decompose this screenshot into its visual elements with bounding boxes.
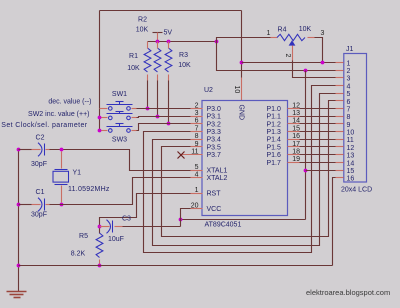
connector J1 box (344, 54, 367, 183)
resistor R3 (165, 48, 172, 72)
wire 5V branch down right side (305, 71, 307, 220)
svg-text:P1.1: P1.1 (267, 114, 282, 121)
wire R1 bottom to SW1 row (147, 81, 149, 109)
switch SW3 (109, 129, 113, 133)
svg-text:15: 15 (292, 125, 300, 132)
svg-text:dec. value (--): dec. value (--) (48, 98, 91, 105)
pin 15 J1 (336, 170, 344, 172)
wire GND top rail (100, 10, 242, 12)
resistor R1 (144, 48, 151, 72)
pin 15 (P1.3) U2 (288, 131, 300, 133)
svg-text:4: 4 (195, 172, 199, 179)
pin 9 J1 (336, 123, 344, 125)
pin stub C1 left (32, 204, 41, 206)
pin 16 J1 (336, 177, 344, 179)
node Y1 bottom junction (60, 203, 64, 207)
pin 10 J1 (336, 131, 344, 133)
svg-text:P3.4: P3.4 (207, 137, 222, 144)
ground symbol (7, 291, 27, 293)
pin 3 J1 (336, 77, 344, 79)
svg-text:R4: R4 (278, 27, 287, 34)
wire VCC jog (181, 209, 191, 227)
pin 5 J1 (336, 93, 344, 95)
op U2 box (202, 101, 288, 216)
node SW3 / GND bus junction (98, 129, 102, 133)
wire R3 bottom to SW3 row (168, 81, 170, 124)
svg-text:11: 11 (191, 149, 198, 156)
svg-text:R5: R5 (79, 233, 88, 240)
node R1/SW1 junction (146, 107, 150, 111)
wire GND to J1 pin1 (242, 62, 336, 64)
pin 3 stub R4 (308, 37, 315, 39)
svg-text:11.0592MHz: 11.0592MHz (68, 186, 110, 193)
svg-text:16: 16 (292, 133, 300, 140)
node Y1 top junction (60, 148, 64, 152)
node 5V rail dot B (167, 40, 171, 44)
pin 20 (VCC) U2 (191, 208, 203, 210)
crystal Y1 (55, 169, 68, 171)
svg-text:R3: R3 (179, 52, 188, 59)
pin 17 (P1.5) U2 (288, 146, 300, 148)
svg-text:XTAL2: XTAL2 (207, 175, 228, 182)
node C1 / bus junction (17, 203, 21, 207)
wire P3.4 to J1 pin5 (153, 94, 336, 246)
svg-text:9: 9 (347, 122, 351, 129)
pin 7 J1 (336, 108, 344, 110)
svg-text:13: 13 (347, 153, 355, 160)
svg-text:Set Clock/sel. parameter: Set Clock/sel. parameter (1, 122, 88, 129)
pin 3 (P3.1) U2 (191, 116, 203, 118)
svg-text:R2: R2 (138, 17, 147, 24)
pin 16 (P1.4) U2 (288, 139, 300, 141)
node R5 / GND junction (98, 264, 102, 268)
svg-text:30pF: 30pF (31, 212, 47, 219)
svg-text:7: 7 (195, 125, 199, 132)
node GND junction at U2 drop (240, 61, 244, 65)
svg-text:P1.6: P1.6 (267, 152, 282, 159)
svg-text:Y1: Y1 (73, 170, 82, 177)
wire RST to divider (100, 194, 191, 234)
svg-text:10: 10 (347, 130, 355, 137)
wire P1.3 to J1 pin 10 (300, 131, 336, 133)
node 5V / LED+ branch (304, 69, 308, 73)
node R4 pin3 / GND junction (321, 61, 325, 65)
svg-text:1: 1 (195, 187, 199, 194)
wire SW1 to U2 pin2 (137, 108, 191, 110)
pin 13 (P1.1) U2 (288, 116, 300, 118)
capacitor C2 (38, 143, 42, 157)
wire C3 to VCC jog (123, 226, 181, 228)
svg-text:13: 13 (292, 110, 300, 117)
svg-text:10K: 10K (178, 62, 191, 69)
svg-text:4: 4 (347, 83, 351, 90)
svg-text:7: 7 (347, 106, 351, 113)
svg-text:R1: R1 (129, 53, 138, 60)
wire R2 bottom to SW2 row (157, 81, 159, 117)
svg-text:10uF: 10uF (108, 236, 124, 243)
pin stub SW3 right (132, 130, 137, 132)
svg-text:P1.0: P1.0 (267, 106, 282, 113)
svg-text:2: 2 (347, 68, 351, 75)
wire P1.7 to J1 pin 14 (300, 162, 336, 164)
svg-text:17: 17 (292, 141, 300, 148)
switch SW1 (109, 107, 113, 111)
svg-text:5: 5 (195, 164, 199, 171)
svg-text:8: 8 (347, 114, 351, 121)
wire 5V down and to J1 pin2 (217, 42, 336, 71)
svg-text:15: 15 (347, 168, 355, 175)
svg-text:18: 18 (292, 149, 300, 156)
svg-text:C2: C2 (36, 135, 45, 142)
pin stub Y1 bottom (61, 186, 63, 203)
pin stub SW2 right (132, 117, 137, 119)
node VCC link junction (179, 218, 183, 222)
node R2/SW2 junction (156, 115, 160, 119)
svg-text:8.2K: 8.2K (71, 250, 86, 257)
pin 8 J1 (336, 116, 344, 118)
wire P1.2 to J1 pin 9 (300, 123, 336, 125)
svg-text:1: 1 (267, 30, 271, 37)
svg-text:5: 5 (347, 91, 351, 98)
wire 5V link to VCC (181, 219, 306, 221)
resistor R2 (154, 48, 161, 72)
capacitor C1 (38, 198, 42, 212)
svg-text:2: 2 (195, 102, 199, 109)
svg-text:10K: 10K (299, 26, 312, 33)
pin stub SW1 right (132, 108, 137, 110)
svg-text:VCC: VCC (207, 206, 222, 213)
wire C2 row left (19, 149, 32, 151)
svg-text:P3.3: P3.3 (207, 129, 222, 136)
svg-text:14: 14 (347, 160, 355, 167)
svg-text:elektroarea.blogspot.com: elektroarea.blogspot.com (306, 288, 390, 297)
svg-text:C1: C1 (36, 189, 45, 196)
pin 6 (P3.2) U2 (191, 123, 203, 125)
svg-text:2: 2 (284, 54, 291, 58)
pin 1 stub R4 (271, 37, 278, 39)
pin 12 (P1.0) U2 (288, 108, 300, 110)
svg-text:SW2 inc. value (++): SW2 inc. value (++) (28, 111, 89, 118)
node C3 left junction (98, 225, 102, 229)
switch SW2 (109, 116, 113, 120)
pin 1 J1 (336, 62, 344, 64)
pin 5 (XTAL1) U2 (191, 170, 203, 172)
svg-text:12: 12 (347, 145, 355, 152)
svg-text:P1.5: P1.5 (267, 144, 282, 151)
pin 2 stub R4 wiper (292, 46, 294, 61)
potentiometer R4 (277, 34, 305, 40)
pin 11 (P3.7) U2 (182, 154, 203, 156)
svg-text:P1.3: P1.3 (267, 129, 282, 136)
svg-text:P1.2: P1.2 (267, 121, 282, 128)
svg-text:J1: J1 (346, 46, 354, 53)
pin 19 (P1.7) U2 (288, 162, 300, 164)
wire C2 row to XTAL1 (50, 150, 191, 171)
svg-text:AT89C4051: AT89C4051 (205, 222, 242, 229)
pin 13 J1 (336, 154, 344, 156)
pin 6 J1 (336, 100, 344, 102)
svg-text:SW3: SW3 (112, 137, 127, 144)
pin stub SW1 left (100, 108, 108, 110)
wire 5V to J1 pin15 (306, 170, 336, 172)
wire P1.6 to J1 pin 13 (300, 154, 336, 156)
wire P1.0 to J1 pin 7 (300, 108, 336, 110)
no-connect X on P3.7 (178, 152, 185, 159)
node 5V rail dot A (156, 40, 160, 44)
wire GND bottom rail (19, 265, 333, 267)
node GND rail corner (17, 264, 21, 268)
svg-text:P3.7: P3.7 (207, 152, 222, 159)
svg-text:10K: 10K (136, 27, 149, 34)
svg-text:10K: 10K (127, 65, 140, 72)
svg-text:3: 3 (347, 76, 351, 83)
svg-text:P1.4: P1.4 (267, 137, 282, 144)
node C2 / bus junction (17, 148, 21, 152)
pin stub C3 right (115, 226, 123, 228)
svg-text:XTAL1: XTAL1 (207, 168, 228, 175)
pin 12 J1 (336, 146, 344, 148)
pin 1 (RST) U2 (191, 193, 203, 195)
svg-text:3: 3 (195, 110, 199, 117)
pin 2 (P3.0) U2 (191, 108, 203, 110)
wire SW3 to U2 pin6 (137, 124, 191, 131)
svg-text:19: 19 (292, 156, 300, 163)
node 5V rail corner dot (215, 40, 219, 44)
pin 8 (P3.4) U2 (191, 139, 203, 141)
power 5V symbol (153, 32, 163, 34)
svg-text:C3: C3 (122, 216, 131, 223)
capacitor C3 (107, 220, 111, 234)
wire GND drop to U2 pin10 (241, 11, 243, 78)
svg-text:8: 8 (195, 133, 199, 140)
svg-text:9: 9 (195, 141, 199, 148)
svg-text:P3.0: P3.0 (207, 106, 222, 113)
svg-text:20: 20 (191, 202, 199, 209)
svg-text:P3.2: P3.2 (207, 121, 222, 128)
pin stub C3 left (100, 226, 110, 228)
svg-text:14: 14 (292, 118, 300, 125)
pin 10 stub (U2 GND) (241, 78, 243, 101)
pin 7 (P3.3) U2 (191, 131, 203, 133)
node SW2 / GND bus junction (98, 116, 102, 120)
pin stub Y1 top (61, 152, 63, 169)
pin 4 (XTAL2) U2 (191, 177, 203, 179)
wire C1 row to XTAL2 (50, 178, 191, 205)
wire GND left bus (caps) (18, 150, 20, 292)
pin 2 J1 (336, 70, 344, 72)
wire R4 pin3 to GND line (315, 38, 323, 63)
svg-text:SW1: SW1 (112, 91, 127, 98)
pin 11 J1 (336, 139, 344, 141)
svg-text:6: 6 (195, 118, 199, 125)
pin stub C1 right (46, 204, 51, 206)
wire GND left drop to switches (99, 11, 101, 131)
svg-text:16: 16 (347, 176, 355, 183)
pin stub SW2 left (100, 117, 108, 119)
pin stub C2 right (46, 149, 51, 151)
pin stub R5 bottom (99, 260, 101, 266)
wire R4 wiper to J1 pin3 (293, 61, 336, 78)
wire P1.5 to J1 pin 12 (300, 146, 336, 148)
pin stub SW3 left (100, 130, 108, 132)
wire P1.4 to J1 pin 11 (300, 139, 336, 141)
pin 9 (P3.5) U2 (191, 146, 203, 148)
svg-text:U2: U2 (204, 87, 213, 94)
svg-text:P3.1: P3.1 (207, 114, 222, 121)
pin 4 J1 (336, 85, 344, 87)
wire P3.5 to J1 pin6 (162, 101, 336, 237)
wire 5V rail (148, 41, 217, 43)
pin stub C2 left (32, 149, 41, 151)
wire SW2 to U2 pin3 (137, 117, 191, 118)
svg-text:12: 12 (292, 102, 300, 109)
wire C1 row left (19, 204, 32, 206)
svg-text:10: 10 (233, 86, 240, 94)
pin 14 (P1.2) U2 (288, 123, 300, 125)
wire P3.3 to J1 pin4 (144, 86, 336, 253)
svg-text:5V: 5V (164, 30, 173, 37)
svg-text:6: 6 (347, 99, 351, 106)
svg-text:P3.5: P3.5 (207, 144, 222, 151)
svg-text:P1.7: P1.7 (267, 160, 282, 167)
svg-text:1: 1 (347, 60, 351, 67)
svg-text:11: 11 (347, 137, 354, 144)
wire GND to J1 pin16 (333, 178, 336, 266)
svg-text:20x4 LCD: 20x4 LCD (341, 187, 372, 194)
svg-text:30pF: 30pF (31, 161, 47, 168)
resistor R5 (96, 233, 103, 258)
node 5V to J1 pin15 junction (304, 169, 308, 173)
svg-text:GND: GND (238, 105, 245, 121)
node R3/SW3 junction (167, 122, 171, 126)
pin 18 (P1.6) U2 (288, 154, 300, 156)
svg-text:3: 3 (321, 30, 325, 37)
wire 5V jog to R4 pin1 (217, 38, 271, 42)
pin 14 J1 (336, 162, 344, 164)
svg-text:RST: RST (207, 191, 222, 198)
wire P1.1 to J1 pin 8 (300, 116, 336, 118)
